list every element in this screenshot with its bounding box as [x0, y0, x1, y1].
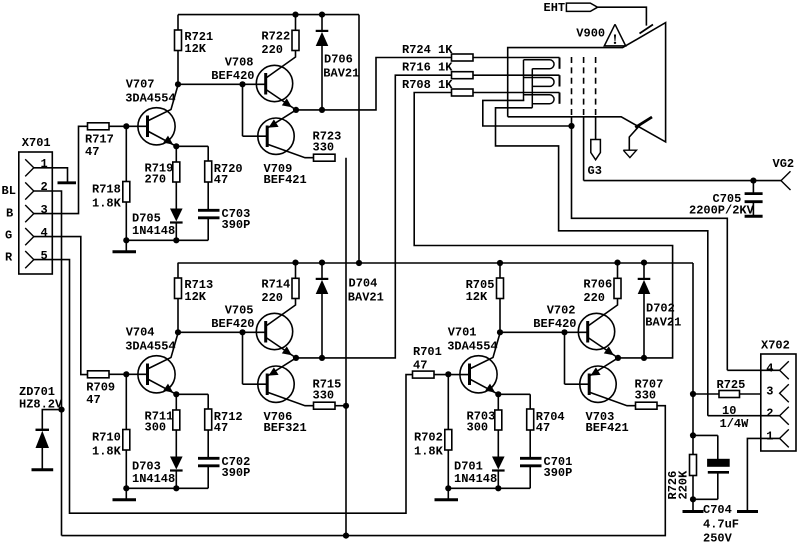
label V707 3DA4554	[125, 78, 175, 106]
label C701 390P	[544, 455, 573, 480]
node ground rail at D703	[173, 485, 179, 491]
wire R723 output down the common feedback line	[345, 158, 347, 536]
node V708 base junction	[239, 81, 245, 87]
resistor R712 47 (vertical)	[205, 409, 212, 458]
wire emitter node to R704	[498, 394, 530, 409]
svg-text:V701: V701	[448, 326, 477, 340]
anode button tick on funnel	[640, 25, 654, 34]
capacitor C705 2200P/2KV	[745, 181, 763, 216]
node V702 base junction	[561, 329, 567, 335]
label V703 BEF421	[586, 410, 629, 435]
svg-text:R: R	[5, 251, 13, 265]
capacitor C704 4.7uF 250V (electrolytic)	[693, 435, 729, 499]
node R725 junction	[690, 391, 696, 397]
wire filter node to ground	[692, 499, 694, 511]
label C704 4.7uF 250V	[703, 503, 739, 546]
svg-text:390P: 390P	[222, 466, 251, 480]
svg-text:BEF321: BEF321	[264, 421, 307, 435]
wire stage emitter-network ground rail	[126, 487, 208, 489]
svg-text:220: 220	[583, 291, 605, 305]
svg-text:X702: X702	[761, 339, 790, 353]
wire top supply rail (stage 1)	[178, 14, 359, 16]
resistor R718 1.8K (vertical, base to ground)	[123, 126, 130, 240]
label C705 2200P/2KV	[689, 192, 755, 218]
pin 2 of X702	[780, 407, 789, 425]
label R714 220	[261, 278, 290, 306]
svg-text:300: 300	[467, 421, 489, 435]
svg-text:47: 47	[214, 421, 228, 435]
wire emitter node to R712	[176, 394, 208, 409]
transistor V702 BEF420 NPN	[578, 299, 618, 358]
wire V701 collector to V702 base	[500, 331, 588, 333]
node R714 top on supply rail	[292, 260, 298, 266]
wire R725 node down to C704 tap	[692, 394, 694, 435]
label R719 270	[145, 162, 174, 187]
wire R709 to V704 base	[109, 373, 148, 375]
svg-text:D706: D706	[324, 52, 353, 66]
resistor R704 47 (vertical)	[527, 409, 534, 458]
node ground rail at D701	[495, 485, 501, 491]
resistor R716 1K (horizontal, green cathode feed)	[452, 72, 474, 79]
wire R716 to green cathode	[473, 74, 560, 76]
svg-text:330: 330	[635, 389, 657, 403]
transistor V709 BEF421 PNP	[258, 110, 314, 158]
node V704 base junction	[123, 371, 129, 377]
node V701 emitter junction	[495, 391, 501, 397]
pin 1 of X701	[25, 159, 34, 176]
svg-text:D702: D702	[646, 302, 675, 316]
label R715 330	[313, 378, 342, 403]
node D706 cathode on rail	[319, 12, 325, 18]
connector X702 body	[761, 354, 796, 451]
pin 2 of X701	[25, 182, 34, 199]
svg-text:BEF421: BEF421	[586, 421, 629, 435]
transistor V701 3DA4554 NPN	[460, 333, 500, 394]
label R722 220	[261, 30, 290, 58]
ground bar under R726/C704	[683, 510, 704, 513]
label V706 BEF321	[264, 410, 307, 435]
transistor V704 3DA4554 NPN	[138, 333, 178, 394]
svg-text:47: 47	[86, 393, 100, 407]
node common line joins bottom run	[343, 533, 349, 539]
svg-text:R725: R725	[717, 378, 746, 392]
diode D706 BAV21 (cathode up at rail)	[316, 15, 329, 110]
svg-text:3: 3	[41, 203, 48, 217]
wire V708/V709 emitter output to R724 riser	[296, 58, 452, 110]
pin 1 of X702	[780, 429, 789, 447]
wire G1 stub to node	[571, 117, 573, 126]
svg-text:BL: BL	[2, 184, 16, 198]
ground symbol at X701 pin 1	[58, 181, 77, 184]
grid G2 (dashed electrode)	[583, 57, 585, 117]
node V707 emitter junction	[173, 143, 179, 149]
capacitor C703 390P	[198, 210, 220, 240]
label D703 1N4148	[132, 460, 175, 487]
wire X701 pin 3 (B) up to R717	[34, 126, 88, 213]
resistor R702 1.8K (vertical, base to ground)	[445, 374, 452, 488]
node D702 anode on emitter output wire	[641, 355, 647, 361]
heater bus A (tops) inside gun box	[523, 60, 525, 101]
svg-text:3: 3	[766, 384, 773, 398]
node R722 top on supply rail	[292, 12, 298, 18]
aquadag slash on funnel bottom	[635, 117, 652, 128]
wire R701 to V701 base	[434, 374, 470, 376]
node ground rail left junction	[123, 237, 129, 243]
svg-text:220: 220	[261, 291, 283, 305]
wire V707 collector to V708 base	[178, 83, 266, 85]
ground symbol of stage	[113, 488, 137, 500]
ground symbol of stage	[113, 240, 137, 252]
capacitor C701 390P	[520, 458, 542, 488]
heater bus B (bottoms) inside gun box	[531, 69, 533, 108]
svg-text:G: G	[5, 229, 12, 243]
label D702 BAV21	[645, 302, 681, 330]
resistor R713 12K (vertical, collector load of V704)	[175, 263, 182, 333]
resistor R715 330 (horizontal, V706 collector)	[314, 402, 336, 409]
svg-text:V707: V707	[126, 78, 155, 92]
svg-text:250V: 250V	[703, 532, 733, 545]
label V701 3DA4554	[447, 326, 497, 354]
node V701 base junction	[445, 371, 451, 377]
resistor R705 12K (vertical, collector load of V701)	[497, 263, 504, 333]
resistor R717 47 (horizontal, stage 1 input)	[88, 123, 110, 130]
node V704 emitter junction	[173, 391, 179, 397]
connector X701 body	[19, 152, 53, 274]
svg-text:1N4148: 1N4148	[132, 472, 175, 486]
label R701 47	[413, 345, 442, 373]
svg-text:R706: R706	[583, 278, 612, 292]
svg-text:V708: V708	[225, 56, 254, 70]
label R711 300	[145, 410, 174, 435]
svg-text:R722: R722	[261, 30, 290, 44]
node emitter junction V705/V706	[293, 355, 299, 361]
label R707 330	[635, 378, 664, 403]
resistor R701 47 (horizontal, stage 3 input)	[413, 371, 435, 378]
svg-text:1.8K: 1.8K	[92, 445, 122, 459]
diode D702 BAV21 (cathode up at rail)	[638, 263, 651, 358]
VG2 terminal arrow	[781, 171, 791, 190]
pin 4 of X701	[25, 228, 34, 245]
diode D701 1N4148 (cathode down)	[492, 457, 505, 489]
svg-text:47: 47	[413, 359, 427, 373]
label D705 1N4148	[132, 212, 175, 239]
pin 3 of X702	[780, 384, 789, 402]
wire base link V705/V706	[243, 332, 268, 384]
label C702 390P	[222, 455, 251, 480]
wire R708 to red cathode	[473, 92, 560, 94]
svg-text:390P: 390P	[544, 466, 573, 480]
node D704 anode on emitter output wire	[319, 355, 325, 361]
svg-text:BAV21: BAV21	[323, 66, 359, 80]
svg-text:4.7uF: 4.7uF	[703, 518, 739, 532]
svg-text:47: 47	[85, 145, 99, 159]
node ground rail left junction	[123, 485, 129, 491]
wire V702/V703 emitter output to R708 riser	[414, 93, 672, 358]
svg-text:1N4148: 1N4148	[132, 224, 175, 238]
svg-text:V900: V900	[576, 26, 605, 40]
svg-text:G3: G3	[588, 164, 602, 178]
wire stage emitter-network ground rail	[448, 487, 530, 489]
svg-text:R716 1K: R716 1K	[402, 61, 453, 75]
label 10 1/4W	[720, 404, 750, 431]
node emitter junction V708/V709	[293, 107, 299, 113]
node V705 base junction	[239, 329, 245, 335]
label V708 BEF420	[211, 56, 254, 83]
svg-text:220: 220	[261, 43, 283, 57]
diode D704 BAV21 (cathode up at rail)	[316, 263, 329, 358]
wire R715 output to common line	[335, 405, 346, 407]
node V701 collector junction	[497, 329, 503, 335]
label R726 220K (rotated)	[666, 470, 691, 500]
svg-text:R724 1K: R724 1K	[402, 43, 453, 57]
svg-text:V702: V702	[547, 304, 576, 318]
ground bar under C705	[745, 215, 763, 218]
grid G3 (dashed electrode)	[595, 57, 597, 117]
node V707 collector junction	[175, 81, 181, 87]
grid G1 (dashed electrode)	[571, 57, 573, 117]
wire X701 pin 5 (R) down and across to R701	[34, 260, 413, 514]
heater hairpin (green gun)	[524, 78, 555, 87]
svg-text:R718: R718	[92, 183, 121, 197]
node R706 top on supply rail	[614, 260, 620, 266]
svg-text:1N4148: 1N4148	[454, 472, 497, 486]
node ZD701 tap on clamp line	[58, 407, 64, 413]
node R715 joins common line	[343, 403, 349, 409]
node supply feed joins lower rail	[356, 260, 362, 266]
resistor R719 270 (vertical, emitter)	[173, 146, 180, 208]
node C704 top tap	[690, 432, 696, 438]
transistor V708 BEF420 NPN	[256, 51, 296, 110]
svg-text:1.8K: 1.8K	[92, 197, 122, 211]
wire VG2 net from G2	[584, 180, 781, 182]
node C704 bottom junction	[690, 496, 696, 502]
G3 terminal tag (pointed)	[591, 140, 601, 160]
diode D703 1N4148 (cathode down)	[170, 457, 183, 489]
label D704 BAV21	[348, 277, 384, 305]
cathode bar (blue gun)	[559, 58, 561, 69]
pin 5 of X701	[25, 251, 34, 268]
resistor R726 220K (vertical)	[690, 435, 697, 499]
label R709 47	[86, 381, 115, 408]
svg-text:BAV21: BAV21	[645, 316, 681, 330]
resistor R711 300 (vertical, emitter)	[173, 394, 180, 456]
svg-text:270: 270	[145, 173, 167, 187]
svg-text:12K: 12K	[184, 290, 206, 304]
svg-text:220K: 220K	[677, 470, 691, 500]
wire emitter node to R720	[176, 146, 208, 161]
node D702 cathode on rail	[641, 260, 647, 266]
svg-text:3DA4554: 3DA4554	[125, 91, 175, 105]
svg-text:3DA4554: 3DA4554	[447, 339, 497, 353]
svg-text:EHT: EHT	[544, 1, 566, 15]
wire G2 down to VG2 line	[583, 117, 585, 181]
wire clamp line to ZD701	[42, 410, 61, 430]
node R705 top on lower rail	[497, 260, 503, 266]
label R713 12K	[184, 278, 213, 304]
cathode bar (red gun)	[559, 93, 561, 104]
label R706 220	[583, 278, 612, 306]
node C705 tap on VG2	[750, 178, 756, 184]
wire base link V702/V703	[565, 332, 590, 384]
svg-text:BEF420: BEF420	[533, 317, 576, 331]
resistor R706 220 (vertical, V702 collector)	[614, 263, 621, 299]
resistor R721 12K (vertical, collector load of V707)	[175, 15, 182, 85]
label R705 12K	[466, 278, 495, 304]
resistor R724 1K (horizontal, blue cathode feed)	[452, 54, 474, 61]
wire X702 pin 1 to ground	[747, 438, 779, 511]
label R718 1.8K	[92, 183, 122, 211]
wire X702 pin 2 row	[708, 415, 780, 417]
node ground rail left junction	[445, 485, 451, 491]
svg-text:1: 1	[41, 157, 48, 171]
svg-text:HZ8.2V: HZ8.2V	[19, 398, 63, 412]
wire V704 collector to V705 base	[178, 331, 266, 333]
svg-text:BEF421: BEF421	[264, 173, 307, 187]
svg-text:330: 330	[313, 141, 335, 155]
wire EHT to anode button	[598, 7, 647, 25]
resistor R709 47 (horizontal, stage 2 input)	[88, 371, 110, 378]
pin 4 of X702	[780, 361, 789, 379]
svg-text:X701: X701	[22, 136, 51, 150]
svg-text:D704: D704	[349, 277, 378, 291]
label V709 BEF421	[264, 162, 307, 187]
svg-text:1/4W: 1/4W	[720, 417, 750, 431]
resistor R703 300 (vertical, emitter)	[495, 394, 502, 456]
svg-text:330: 330	[313, 389, 335, 403]
node V707 base junction	[123, 123, 129, 129]
resistor R710 1.8K (vertical, base to ground)	[123, 374, 130, 488]
label R702 1.8K	[414, 431, 444, 459]
chassis ground arrow (open triangle)	[623, 150, 636, 157]
EHT terminal tag	[566, 3, 597, 11]
resistor R708 1K (horizontal, red cathode feed)	[452, 89, 474, 96]
svg-text:2: 2	[41, 180, 48, 194]
svg-text:V704: V704	[126, 326, 155, 340]
heater hairpin (red gun)	[524, 95, 555, 104]
wire R717 to V707 base	[109, 125, 148, 127]
cathode bar (green gun)	[559, 75, 561, 86]
label V705 BEF420	[211, 304, 254, 331]
svg-text:V705: V705	[225, 304, 254, 318]
label R721 12K	[184, 30, 213, 56]
wire R724 to blue cathode	[473, 57, 560, 59]
svg-text:1.8K: 1.8K	[414, 445, 444, 459]
resistor R725 10 1/4W (horizontal)	[693, 391, 780, 398]
svg-text:5: 5	[41, 249, 48, 263]
label V704 3DA4554	[125, 326, 175, 354]
wire X701 pin 2 (BL) down to clamp line	[34, 191, 62, 536]
svg-text:2200P/2KV: 2200P/2KV	[689, 204, 755, 218]
diode D705 1N4148 (cathode down)	[170, 209, 183, 241]
label R717 47	[85, 133, 114, 160]
svg-text:47: 47	[214, 173, 228, 187]
resistor R722 220 (vertical, V708 collector)	[292, 15, 299, 51]
zener diode ZD701 HZ8.2V (cathode up)	[36, 430, 50, 469]
svg-text:C704: C704	[703, 503, 732, 517]
transistor V706 BEF321 PNP	[258, 358, 314, 406]
wire X701 pin 1 to ground	[34, 168, 68, 182]
heater hairpin (blue gun)	[524, 60, 555, 69]
wire base link V708/V709	[243, 84, 268, 136]
wire stage emitter-network ground rail	[126, 239, 208, 241]
transistor V707 3DA4554 NPN	[138, 85, 178, 146]
svg-text:!: !	[613, 32, 618, 48]
wire G1 down and across to X702 pin 4	[572, 126, 728, 370]
svg-text:300: 300	[145, 421, 167, 435]
node D704 cathode on rail	[319, 260, 325, 266]
node emitter junction V702/V703	[615, 355, 621, 361]
warning triangle next to V900	[604, 24, 625, 48]
node G1 junction	[568, 123, 574, 129]
svg-text:BEF420: BEF420	[211, 69, 254, 83]
label D706 BAV21	[323, 52, 359, 80]
label D701 1N4148	[454, 460, 497, 487]
svg-text:R701: R701	[413, 345, 442, 359]
resistor R720 47 (vertical)	[205, 161, 212, 210]
label ZD701 HZ8.2V	[19, 385, 63, 412]
ground symbol of stage	[435, 488, 459, 500]
label V702 BEF420	[533, 304, 576, 331]
svg-text:1: 1	[766, 429, 773, 443]
label R703 300	[467, 410, 496, 435]
wire supply feed vertical from top rail down to lower rail	[358, 15, 360, 263]
wire aquadag to chassis ground	[629, 124, 641, 150]
ground bar at X702 pin 1	[737, 510, 758, 513]
node V704 collector junction	[175, 329, 181, 335]
label R723 330	[313, 130, 342, 155]
resistor R723 330 (horizontal, V709 collector)	[314, 154, 336, 161]
svg-text:12K: 12K	[184, 42, 206, 56]
svg-text:R710: R710	[92, 431, 121, 445]
resistor R707 330 (horizontal, V703 collector)	[636, 402, 658, 409]
svg-text:R714: R714	[261, 278, 290, 292]
svg-text:R702: R702	[414, 431, 443, 445]
wire lower rail corner down to R725 node	[692, 263, 694, 394]
svg-text:390P: 390P	[222, 218, 251, 232]
svg-text:B: B	[6, 207, 13, 221]
resistor R714 220 (vertical, V705 collector)	[292, 263, 299, 299]
transistor V705 BEF420 NPN	[256, 299, 296, 358]
CRT V900 gun box outline	[508, 23, 666, 142]
svg-text:VG2: VG2	[773, 157, 795, 171]
label C703 390P	[222, 207, 251, 232]
wire G3 down to terminal	[595, 117, 597, 140]
pin 3 of X701	[25, 205, 34, 222]
label R712 47	[214, 410, 243, 435]
wire lower supply rail (stages 2 and 3)	[178, 262, 693, 264]
transistor V703 BEF421 PNP	[580, 358, 636, 406]
svg-text:12K: 12K	[466, 290, 488, 304]
svg-text:R708 1K: R708 1K	[402, 78, 453, 92]
svg-text:4: 4	[41, 226, 48, 240]
node D706 anode on emitter output wire	[319, 107, 325, 113]
svg-text:BEF420: BEF420	[211, 317, 254, 331]
capacitor C702 390P	[198, 458, 220, 488]
svg-text:3DA4554: 3DA4554	[125, 339, 175, 353]
label R710 1.8K	[92, 431, 122, 459]
wire X701 pin 4 (G) down to R709	[34, 237, 88, 375]
svg-text:BAV21: BAV21	[348, 291, 384, 305]
wire R707 output corner to bottom run	[62, 406, 666, 536]
wire X702 pin 4 row	[727, 369, 779, 371]
svg-text:2: 2	[766, 407, 773, 421]
svg-text:47: 47	[536, 421, 550, 435]
label R720 47	[214, 162, 243, 187]
ground symbol under ZD701	[32, 468, 54, 471]
wire V705/V706 emitter output to R716 riser	[296, 75, 452, 358]
wire heater bus A exit to G1 node	[483, 100, 572, 126]
node ground rail at D705	[173, 237, 179, 243]
